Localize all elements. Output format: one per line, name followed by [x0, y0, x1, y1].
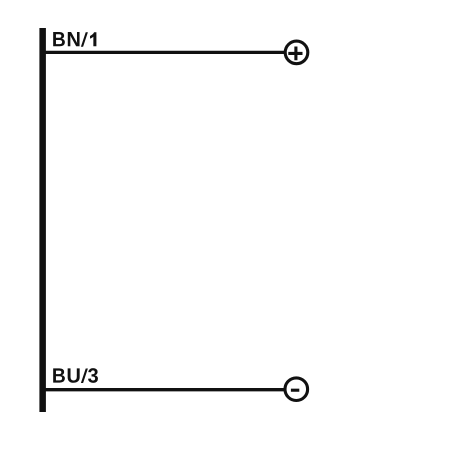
wire BN/1 (brown, pin 1): [44, 51, 284, 54]
terminal - (minus): [285, 378, 308, 401]
wire BU/3 (blue, pin 3): [44, 388, 284, 391]
label BU/3: [53, 368, 98, 383]
label BN/1: [53, 32, 96, 47]
terminal + (plus): [285, 41, 308, 64]
potential equalization bus bar: [39, 28, 46, 412]
